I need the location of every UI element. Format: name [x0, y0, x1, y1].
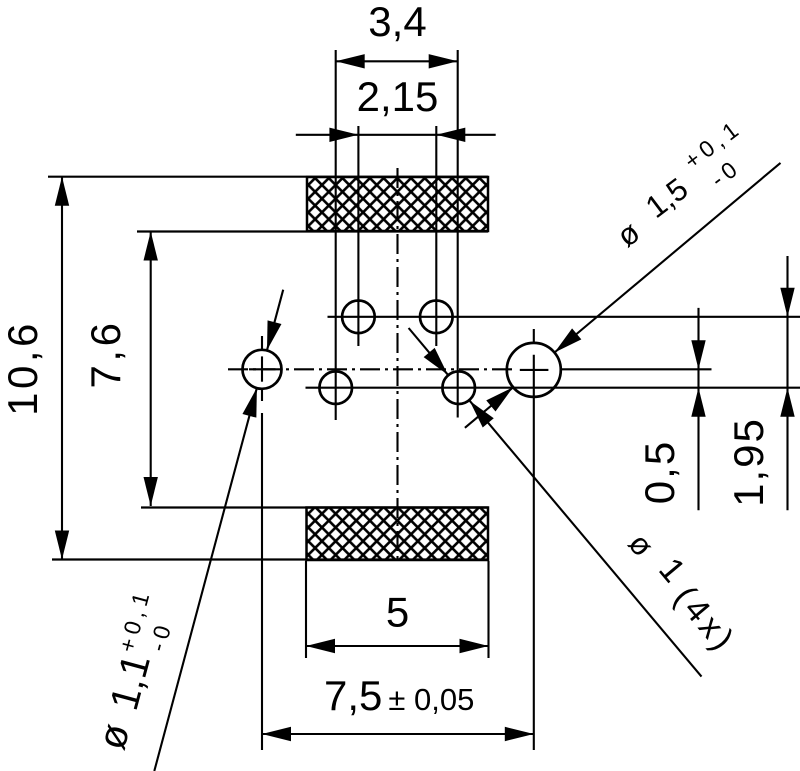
object line bottom edge (10,6 extension) [52, 558, 488, 560]
dimension 10,6 [0, 177, 69, 560]
dimension 5 [306, 589, 489, 654]
svg-text:2,15: 2,15 [357, 73, 439, 120]
object line bottom pad top edge (7,6 extension) [141, 506, 488, 508]
leader Ø1,5 lower segment [465, 382, 518, 428]
svg-text:ø: ø [610, 214, 646, 253]
dimension 2,15 [296, 73, 496, 142]
label Ø1,1 +0,1/-0 [90, 585, 177, 754]
extension line 2,15 right (through top-right hole) [435, 126, 437, 346]
hole bottom-left Ø1 [319, 371, 352, 404]
hole left Ø1,1 [243, 336, 282, 401]
extension line top hole row (1,95 upper) [328, 316, 800, 318]
leader Ø1,1 upper segment [260, 290, 283, 352]
svg-text:1,1: 1,1 [102, 650, 159, 715]
extension line 3,4 left (through bottom-left hole) [335, 50, 337, 420]
extension line 2,15 left (through top-left hole) [357, 126, 359, 346]
svg-text:1,5: 1,5 [639, 171, 694, 225]
label Ø1 (4x) [622, 526, 744, 660]
extension line 3,4 right (through bottom-right hole) [457, 50, 459, 418]
leader Ø1 (4x) upper segment [409, 328, 454, 379]
object line top edge (10,6 extension) [48, 176, 488, 178]
extension line center row (0,5 upper) [561, 368, 712, 370]
extension line 7,5 left [261, 413, 263, 750]
svg-text:1: 1 [651, 551, 692, 590]
svg-text:3,4: 3,4 [368, 0, 426, 45]
svg-text:1,95: 1,95 [725, 417, 772, 507]
label Ø1,5 +0,1/-0 [610, 114, 747, 254]
svg-text:0,5: 0,5 [636, 440, 683, 504]
svg-text:5: 5 [386, 589, 409, 636]
svg-text:ø: ø [622, 526, 661, 563]
hatched pad top [307, 177, 488, 231]
object line top pad bottom edge (7,6 extension) [137, 230, 488, 232]
extension line 5 right [487, 561, 489, 658]
svg-text:7,6: 7,6 [82, 320, 129, 389]
svg-text:-0: -0 [144, 618, 177, 654]
svg-text:ø: ø [90, 719, 139, 754]
hole right Ø1,5 [507, 329, 561, 397]
dimension 3,4 [336, 0, 458, 69]
svg-text:10,6: 10,6 [0, 320, 46, 416]
dimension 7,5 ± 0,05 [262, 672, 534, 741]
vertical centerline [396, 168, 398, 560]
extension line 7,5 right (through hole right) [533, 355, 535, 750]
dimension 0,5 [636, 308, 706, 510]
leader Ø1 (4x) lower segment [464, 396, 701, 677]
hole bottom-right Ø1 [442, 371, 475, 404]
leader Ø1,1 lower segment [154, 386, 264, 771]
svg-text:7,5± 0,05: 7,5± 0,05 [324, 672, 474, 719]
dimension 7,6 [82, 232, 158, 507]
hatched pad bottom [307, 508, 489, 561]
dimension 1,95 [725, 256, 795, 510]
hole top-left Ø1 [342, 301, 375, 334]
extension line 5 left [305, 561, 307, 658]
hole top-right Ø1 [420, 301, 453, 334]
extension line bottom hole row (1,95 / 0,5 lower) [306, 387, 800, 389]
leader Ø1,5 upper segment [550, 163, 781, 358]
horizontal centerline [228, 368, 512, 370]
